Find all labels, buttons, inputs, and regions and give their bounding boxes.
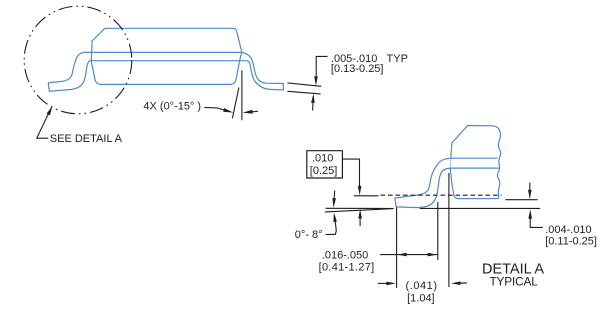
standoff landing line bbox=[505, 199, 537, 201]
detail body blob bbox=[450, 126, 501, 199]
svg-text:0°- 8°: 0°- 8° bbox=[295, 229, 323, 241]
dimension line .016-.050 bbox=[380, 254, 437, 256]
svg-text:.010: .010 bbox=[312, 153, 333, 165]
foot-bottom tilted line bbox=[325, 209, 394, 212]
SEE DETAIL A leader bbox=[37, 112, 50, 139]
svg-text:4X (0°-15° ): 4X (0°-15° ) bbox=[143, 101, 201, 113]
lower lead-plane line bbox=[89, 60, 244, 62]
extension line E3 (gauge point) bbox=[448, 173, 450, 287]
left lead outline bbox=[48, 52, 90, 91]
detail lower lead-plane line bbox=[450, 167, 499, 169]
up arrow to seating plane (.010 dim) bbox=[359, 217, 361, 227]
svg-text:[1.04]: [1.04] bbox=[407, 293, 435, 305]
seating plane right segment bbox=[420, 207, 540, 209]
svg-text:.016-.050: .016-.050 bbox=[322, 250, 368, 262]
svg-text:[0.25]: [0.25] bbox=[310, 165, 338, 177]
0-8 deg up arrow with leader bbox=[326, 220, 337, 235]
right arrow of angle dimension bbox=[250, 110, 258, 113]
detail lead outline bbox=[395, 158, 451, 207]
gauge plane dashed line bbox=[381, 194, 502, 196]
right lead (gull wing) fill bbox=[242, 52, 284, 90]
svg-text:[0.13-0.25]: [0.13-0.25] bbox=[331, 63, 384, 75]
lower thickness arrow bbox=[312, 101, 315, 111]
standoff .004-.010 down arrow bbox=[529, 183, 531, 192]
package body (main side view) bbox=[91, 28, 242, 84]
standoff up arrow with leader bbox=[530, 217, 543, 228]
left lead (gull wing) fill bbox=[48, 52, 90, 91]
lead thickness extension line lower bbox=[287, 91, 320, 94]
lead-angle slanted reference line bbox=[232, 88, 239, 119]
dimension (.041) right arrow bbox=[459, 282, 467, 284]
lead thickness extension line upper bbox=[287, 83, 321, 86]
dimension (.041) left arrow bbox=[378, 282, 388, 284]
seating plane left segment bbox=[326, 207, 394, 209]
svg-text:SEE DETAIL A: SEE DETAIL A bbox=[50, 133, 123, 145]
svg-text:[0.11-0.25]: [0.11-0.25] bbox=[545, 236, 597, 248]
leader for 4X label bbox=[205, 107, 228, 110]
0-8 deg down arrow bbox=[333, 191, 336, 200]
detail upper lead-plane line bbox=[451, 157, 498, 159]
right lead outline bbox=[242, 52, 284, 90]
detail circle (phantom) bbox=[24, 6, 132, 114]
gauge plane solid landing line bbox=[354, 195, 379, 197]
svg-text:.004-.010: .004-.010 bbox=[545, 224, 591, 236]
detail lead fill bbox=[395, 158, 451, 207]
extension line E1 (foot tip) bbox=[396, 207, 398, 288]
extension line E2 (foot flat end) bbox=[437, 202, 439, 260]
leader for thickness dimension bbox=[316, 56, 327, 78]
upper lead-plane line bbox=[83, 51, 241, 53]
svg-text:(.041): (.041) bbox=[406, 280, 438, 292]
boxed dimension .010 [0.25] bbox=[307, 151, 343, 178]
svg-text:[0.41-1.27]: [0.41-1.27] bbox=[319, 262, 375, 274]
lead-angle vertical reference line bbox=[241, 70, 243, 120]
svg-text:TYPICAL: TYPICAL bbox=[490, 274, 539, 288]
leader from box bbox=[342, 159, 359, 188]
